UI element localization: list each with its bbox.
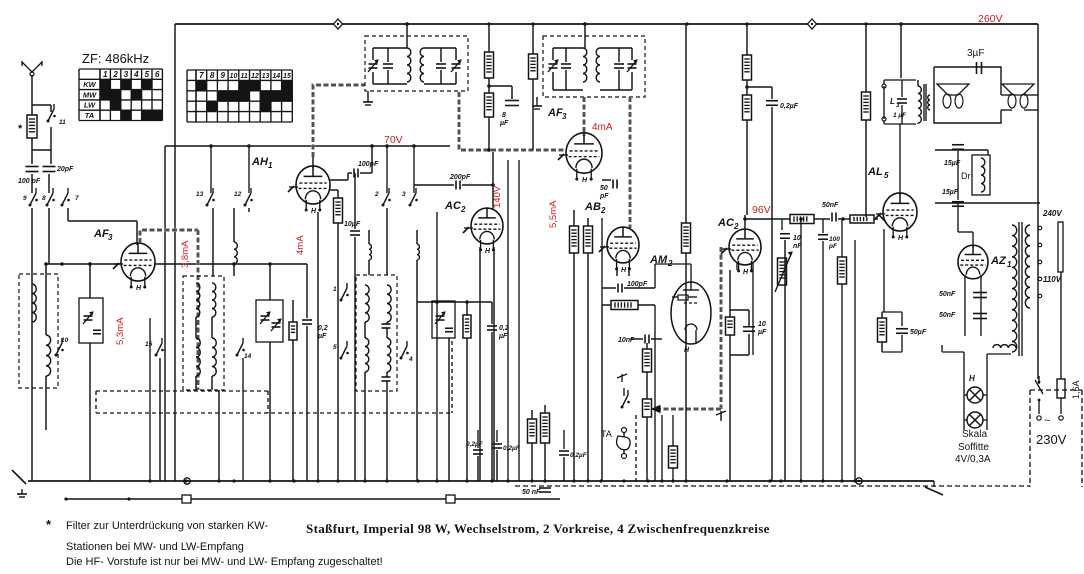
- svg-text:H: H: [969, 374, 975, 383]
- svg-text:0,2µF: 0,2µF: [466, 441, 484, 448]
- svg-text:140V: 140V: [492, 185, 503, 208]
- svg-text:LW: LW: [84, 101, 96, 110]
- svg-text:10: 10: [230, 73, 238, 80]
- svg-text:Skala: Skala: [962, 429, 987, 440]
- svg-text:13: 13: [196, 191, 204, 198]
- svg-text:7: 7: [75, 195, 79, 202]
- svg-text:15µF: 15µF: [942, 189, 959, 196]
- svg-text:pF: pF: [828, 243, 838, 250]
- svg-text:Staßfurt, Imperial 98 W, Wechs: Staßfurt, Imperial 98 W, Wechselstrom, 2…: [306, 521, 770, 536]
- svg-text:1: 1: [333, 286, 337, 293]
- svg-text:240V: 240V: [1042, 209, 1062, 218]
- svg-text:12: 12: [251, 73, 259, 80]
- svg-text:10: 10: [793, 235, 801, 242]
- svg-text:Stationen bei MW- und LW-Empfa: Stationen bei MW- und LW-Empfang: [66, 541, 244, 553]
- svg-text:4: 4: [408, 356, 413, 363]
- svg-text:Soffitte: Soffitte: [958, 442, 989, 453]
- svg-text:8: 8: [210, 71, 215, 80]
- svg-text:H: H: [136, 285, 142, 292]
- svg-text:2: 2: [374, 191, 379, 198]
- svg-text:5,3mA: 5,3mA: [115, 317, 126, 345]
- svg-text:5: 5: [145, 70, 150, 79]
- svg-text:µF: µF: [757, 329, 767, 336]
- svg-text:MW: MW: [83, 90, 97, 99]
- svg-text:Filter zur Unterdrückung von s: Filter zur Unterdrückung von starken KW-: [66, 520, 268, 532]
- svg-text:AF: AF: [93, 228, 109, 240]
- svg-text:50nF: 50nF: [822, 202, 839, 209]
- svg-text:70V: 70V: [384, 134, 403, 146]
- svg-text:110V: 110V: [1043, 275, 1062, 284]
- svg-text:13: 13: [262, 73, 270, 80]
- svg-text:3,8mA: 3,8mA: [180, 240, 191, 268]
- svg-text:H: H: [743, 269, 749, 276]
- svg-text:2: 2: [600, 206, 606, 215]
- svg-text:H: H: [898, 235, 904, 242]
- svg-text:50µF: 50µF: [910, 329, 927, 336]
- svg-text:µF: µF: [499, 120, 509, 127]
- svg-text:Dr: Dr: [961, 171, 971, 181]
- svg-text:0,2µF: 0,2µF: [503, 445, 521, 452]
- svg-text:AL: AL: [867, 166, 883, 178]
- svg-text:H: H: [684, 347, 690, 354]
- svg-text:0,2: 0,2: [318, 325, 328, 332]
- svg-text:5,5mA: 5,5mA: [548, 200, 559, 228]
- svg-text:11: 11: [59, 119, 66, 126]
- svg-text:3µF: 3µF: [967, 48, 984, 59]
- svg-text:100: 100: [829, 236, 840, 243]
- svg-text:H: H: [621, 267, 627, 274]
- svg-text:AF: AF: [547, 107, 563, 119]
- svg-text:20pF: 20pF: [56, 166, 74, 173]
- svg-text:4V/0,3A: 4V/0,3A: [955, 454, 991, 465]
- svg-text:100 pF: 100 pF: [18, 178, 41, 185]
- svg-text:9: 9: [23, 195, 27, 202]
- svg-text:14: 14: [272, 73, 280, 80]
- svg-text:3: 3: [896, 103, 900, 109]
- svg-text:AH: AH: [251, 156, 269, 168]
- svg-text:14: 14: [244, 353, 252, 360]
- svg-text:8: 8: [502, 112, 506, 119]
- svg-text:0,2µF: 0,2µF: [780, 103, 799, 110]
- svg-text:1 µF: 1 µF: [893, 112, 907, 119]
- svg-text:4mA: 4mA: [592, 122, 613, 133]
- svg-text:TA: TA: [85, 111, 94, 120]
- svg-text:7: 7: [199, 71, 204, 80]
- svg-text:2: 2: [733, 222, 739, 231]
- svg-text:200pF: 200pF: [449, 174, 471, 181]
- svg-text:TA: TA: [601, 429, 612, 439]
- svg-text:50 nF: 50 nF: [522, 489, 541, 496]
- svg-text:260V: 260V: [978, 13, 1003, 25]
- svg-text:4: 4: [133, 70, 139, 79]
- svg-text:2: 2: [460, 205, 466, 214]
- svg-text:KW: KW: [83, 80, 96, 89]
- svg-text:12: 12: [234, 191, 242, 198]
- svg-text:96V: 96V: [752, 204, 771, 216]
- svg-text:10µF: 10µF: [344, 221, 361, 228]
- svg-text:ZF: 486kHz: ZF: 486kHz: [82, 51, 149, 66]
- svg-text:µF: µF: [498, 333, 508, 340]
- svg-text:9: 9: [221, 71, 226, 80]
- svg-text:*: *: [46, 517, 52, 532]
- svg-text:6: 6: [155, 70, 160, 79]
- svg-text:50nF: 50nF: [939, 291, 956, 298]
- svg-text:3: 3: [562, 112, 567, 121]
- svg-text:11: 11: [241, 73, 248, 80]
- svg-text:4mA: 4mA: [295, 235, 306, 255]
- svg-text:AC: AC: [717, 217, 735, 229]
- svg-text:0,2µF: 0,2µF: [570, 452, 588, 459]
- svg-text:15: 15: [283, 73, 291, 80]
- svg-text:pF: pF: [599, 193, 609, 200]
- svg-text:50nF: 50nF: [939, 312, 956, 319]
- svg-text:5: 5: [333, 344, 337, 351]
- svg-text:AZ: AZ: [990, 255, 1007, 267]
- svg-text:2: 2: [112, 70, 118, 79]
- svg-text:5: 5: [884, 171, 889, 180]
- svg-text:50: 50: [600, 185, 608, 192]
- svg-text:1,6A: 1,6A: [1071, 380, 1081, 399]
- svg-text:AB: AB: [584, 201, 601, 213]
- svg-text:H: H: [582, 177, 588, 184]
- svg-text:H: H: [311, 208, 317, 215]
- svg-text:Die HF- Vorstufe ist nur bei M: Die HF- Vorstufe ist nur bei MW- und LW-…: [66, 556, 383, 568]
- svg-text:15: 15: [145, 341, 153, 348]
- svg-text:100pF: 100pF: [358, 161, 379, 168]
- svg-text:AC: AC: [444, 200, 462, 212]
- svg-text:3: 3: [124, 70, 129, 79]
- svg-text:H: H: [485, 248, 491, 255]
- svg-text:L: L: [890, 97, 895, 106]
- svg-text:10nF: 10nF: [618, 337, 635, 344]
- svg-text:1: 1: [103, 70, 108, 79]
- svg-text:1: 1: [1007, 260, 1012, 269]
- svg-text:10: 10: [61, 337, 69, 344]
- svg-text:10: 10: [758, 321, 766, 328]
- svg-text:*: *: [18, 123, 23, 135]
- svg-text:3: 3: [402, 191, 406, 198]
- svg-text:1: 1: [268, 161, 273, 170]
- svg-text:3: 3: [108, 233, 113, 242]
- svg-text:230V: 230V: [1036, 432, 1067, 447]
- svg-text:100pF: 100pF: [627, 281, 648, 288]
- svg-text:8: 8: [42, 195, 46, 202]
- svg-text:~: ~: [1044, 415, 1050, 427]
